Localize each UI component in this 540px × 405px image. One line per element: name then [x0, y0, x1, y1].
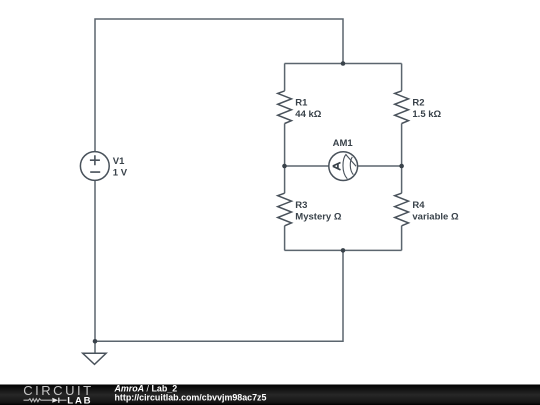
wire right branch vertical (R2/R4 column) [401, 64, 403, 251]
footer logo wordmark LAB [67, 395, 92, 405]
svg-text:44 kΩ: 44 kΩ [295, 109, 321, 120]
svg-text:1 V: 1 V [113, 168, 128, 179]
wire bridge top horizontal [285, 63, 402, 65]
wire left rail below V1 down to bottom [94, 180, 96, 341]
footer url [115, 392, 267, 402]
label R3 Mystery Ohm [295, 200, 342, 222]
wire top rail from V1 to bridge top [95, 19, 343, 152]
label R1 44 kOhm [295, 98, 321, 120]
ground [83, 353, 106, 364]
wire ground stem [94, 341, 96, 353]
wire bridge middle horizontal to ammeter [285, 165, 402, 167]
resistor R4 [395, 193, 409, 226]
resistor R3 [278, 193, 292, 226]
footer CircuitLab logo wordmark CIRCUIT [23, 383, 93, 398]
voltage source V1 [80, 152, 109, 181]
resistor R2 [395, 91, 409, 124]
wire bridge bottom to main bottom rail [95, 250, 343, 341]
svg-text:AM1: AM1 [333, 138, 354, 149]
svg-text:LAB: LAB [67, 395, 92, 405]
resistor R1 [278, 91, 292, 124]
label R4 variable Ohm [412, 200, 459, 222]
svg-text:R3: R3 [295, 200, 307, 211]
node junction ground corner [93, 339, 98, 344]
node junction top (bridge feed) [341, 61, 346, 66]
svg-text:R1: R1 [295, 98, 308, 109]
label R2 1.5 kOhm [412, 98, 441, 120]
svg-text:1.5 kΩ: 1.5 kΩ [412, 109, 441, 120]
svg-text:V1: V1 [113, 156, 125, 167]
ammeter AM1 [329, 152, 358, 181]
wire left branch vertical (R1/R3 column) [284, 64, 286, 251]
svg-text:variable Ω: variable Ω [412, 211, 459, 222]
label AM1 [333, 138, 354, 149]
footer logo waveform resistor and diode [24, 398, 67, 403]
svg-text:R2: R2 [412, 98, 424, 109]
svg-text:http://circuitlab.com/cbvvjm98: http://circuitlab.com/cbvvjm98ac7z5 [115, 392, 267, 402]
footer bar [0, 385, 540, 405]
svg-text:R4: R4 [412, 200, 425, 211]
node junction bridge right mid [399, 164, 404, 169]
wire bridge bottom horizontal [285, 249, 402, 251]
node junction bridge bottom [341, 248, 346, 253]
label V1 value [113, 156, 128, 178]
node junction bridge left mid [282, 164, 287, 169]
footer title AmroA / Lab_2 [114, 383, 178, 393]
svg-text:Mystery Ω: Mystery Ω [295, 211, 342, 222]
